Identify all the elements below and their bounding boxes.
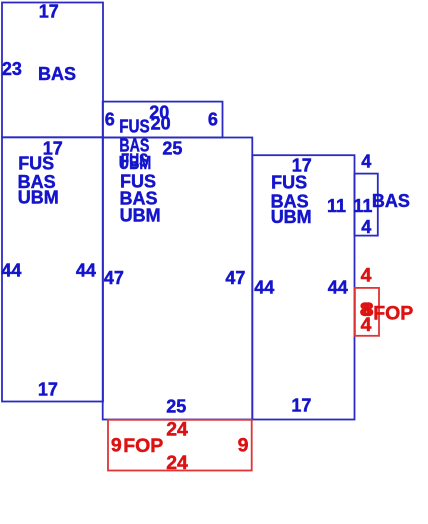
svg-text:9: 9 xyxy=(238,434,249,456)
svg-text:24: 24 xyxy=(166,452,188,474)
svg-text:47: 47 xyxy=(225,268,245,288)
svg-text:47: 47 xyxy=(104,268,124,288)
svg-text:17: 17 xyxy=(39,2,59,22)
svg-text:FUS: FUS xyxy=(271,173,307,193)
svg-text:17: 17 xyxy=(291,396,311,416)
svg-text:6: 6 xyxy=(105,110,115,130)
svg-text:11: 11 xyxy=(327,196,346,216)
block D rectangle xyxy=(252,155,354,419)
svg-text:FOP: FOP xyxy=(373,302,413,324)
svg-text:4: 4 xyxy=(361,314,372,336)
svg-text:4: 4 xyxy=(361,217,371,237)
svg-text:4: 4 xyxy=(361,265,372,287)
bar H rectangle xyxy=(103,102,223,138)
svg-text:UBM: UBM xyxy=(120,206,161,226)
svg-text:20: 20 xyxy=(151,113,171,133)
svg-text:FUS: FUS xyxy=(119,116,150,136)
svg-text:FUS: FUS xyxy=(121,151,149,171)
block B rectangle xyxy=(2,137,103,401)
svg-text:17: 17 xyxy=(38,380,58,400)
svg-text:UBM: UBM xyxy=(271,207,312,227)
svg-text:24: 24 xyxy=(166,419,188,441)
svg-text:44: 44 xyxy=(328,277,348,297)
svg-text:FOP: FOP xyxy=(123,435,163,457)
svg-text:44: 44 xyxy=(1,260,21,280)
svg-text:25: 25 xyxy=(166,397,186,417)
svg-text:11: 11 xyxy=(353,196,372,216)
svg-text:6: 6 xyxy=(208,110,218,130)
svg-text:44: 44 xyxy=(76,260,96,280)
svg-text:BAS: BAS xyxy=(38,64,76,84)
svg-text:44: 44 xyxy=(254,277,274,297)
svg-text:BAS: BAS xyxy=(372,191,410,211)
svg-text:4: 4 xyxy=(361,152,371,172)
block C rectangle xyxy=(103,138,253,420)
svg-text:9: 9 xyxy=(111,434,122,456)
svg-text:25: 25 xyxy=(162,138,182,158)
block E rectangle xyxy=(355,174,378,236)
block A rectangle xyxy=(2,3,103,138)
block G rectangle (red) xyxy=(108,420,252,471)
svg-text:UBM: UBM xyxy=(18,188,59,208)
svg-text:FUS: FUS xyxy=(18,153,54,173)
block F rectangle (red) xyxy=(355,288,379,336)
svg-text:23: 23 xyxy=(2,59,22,79)
